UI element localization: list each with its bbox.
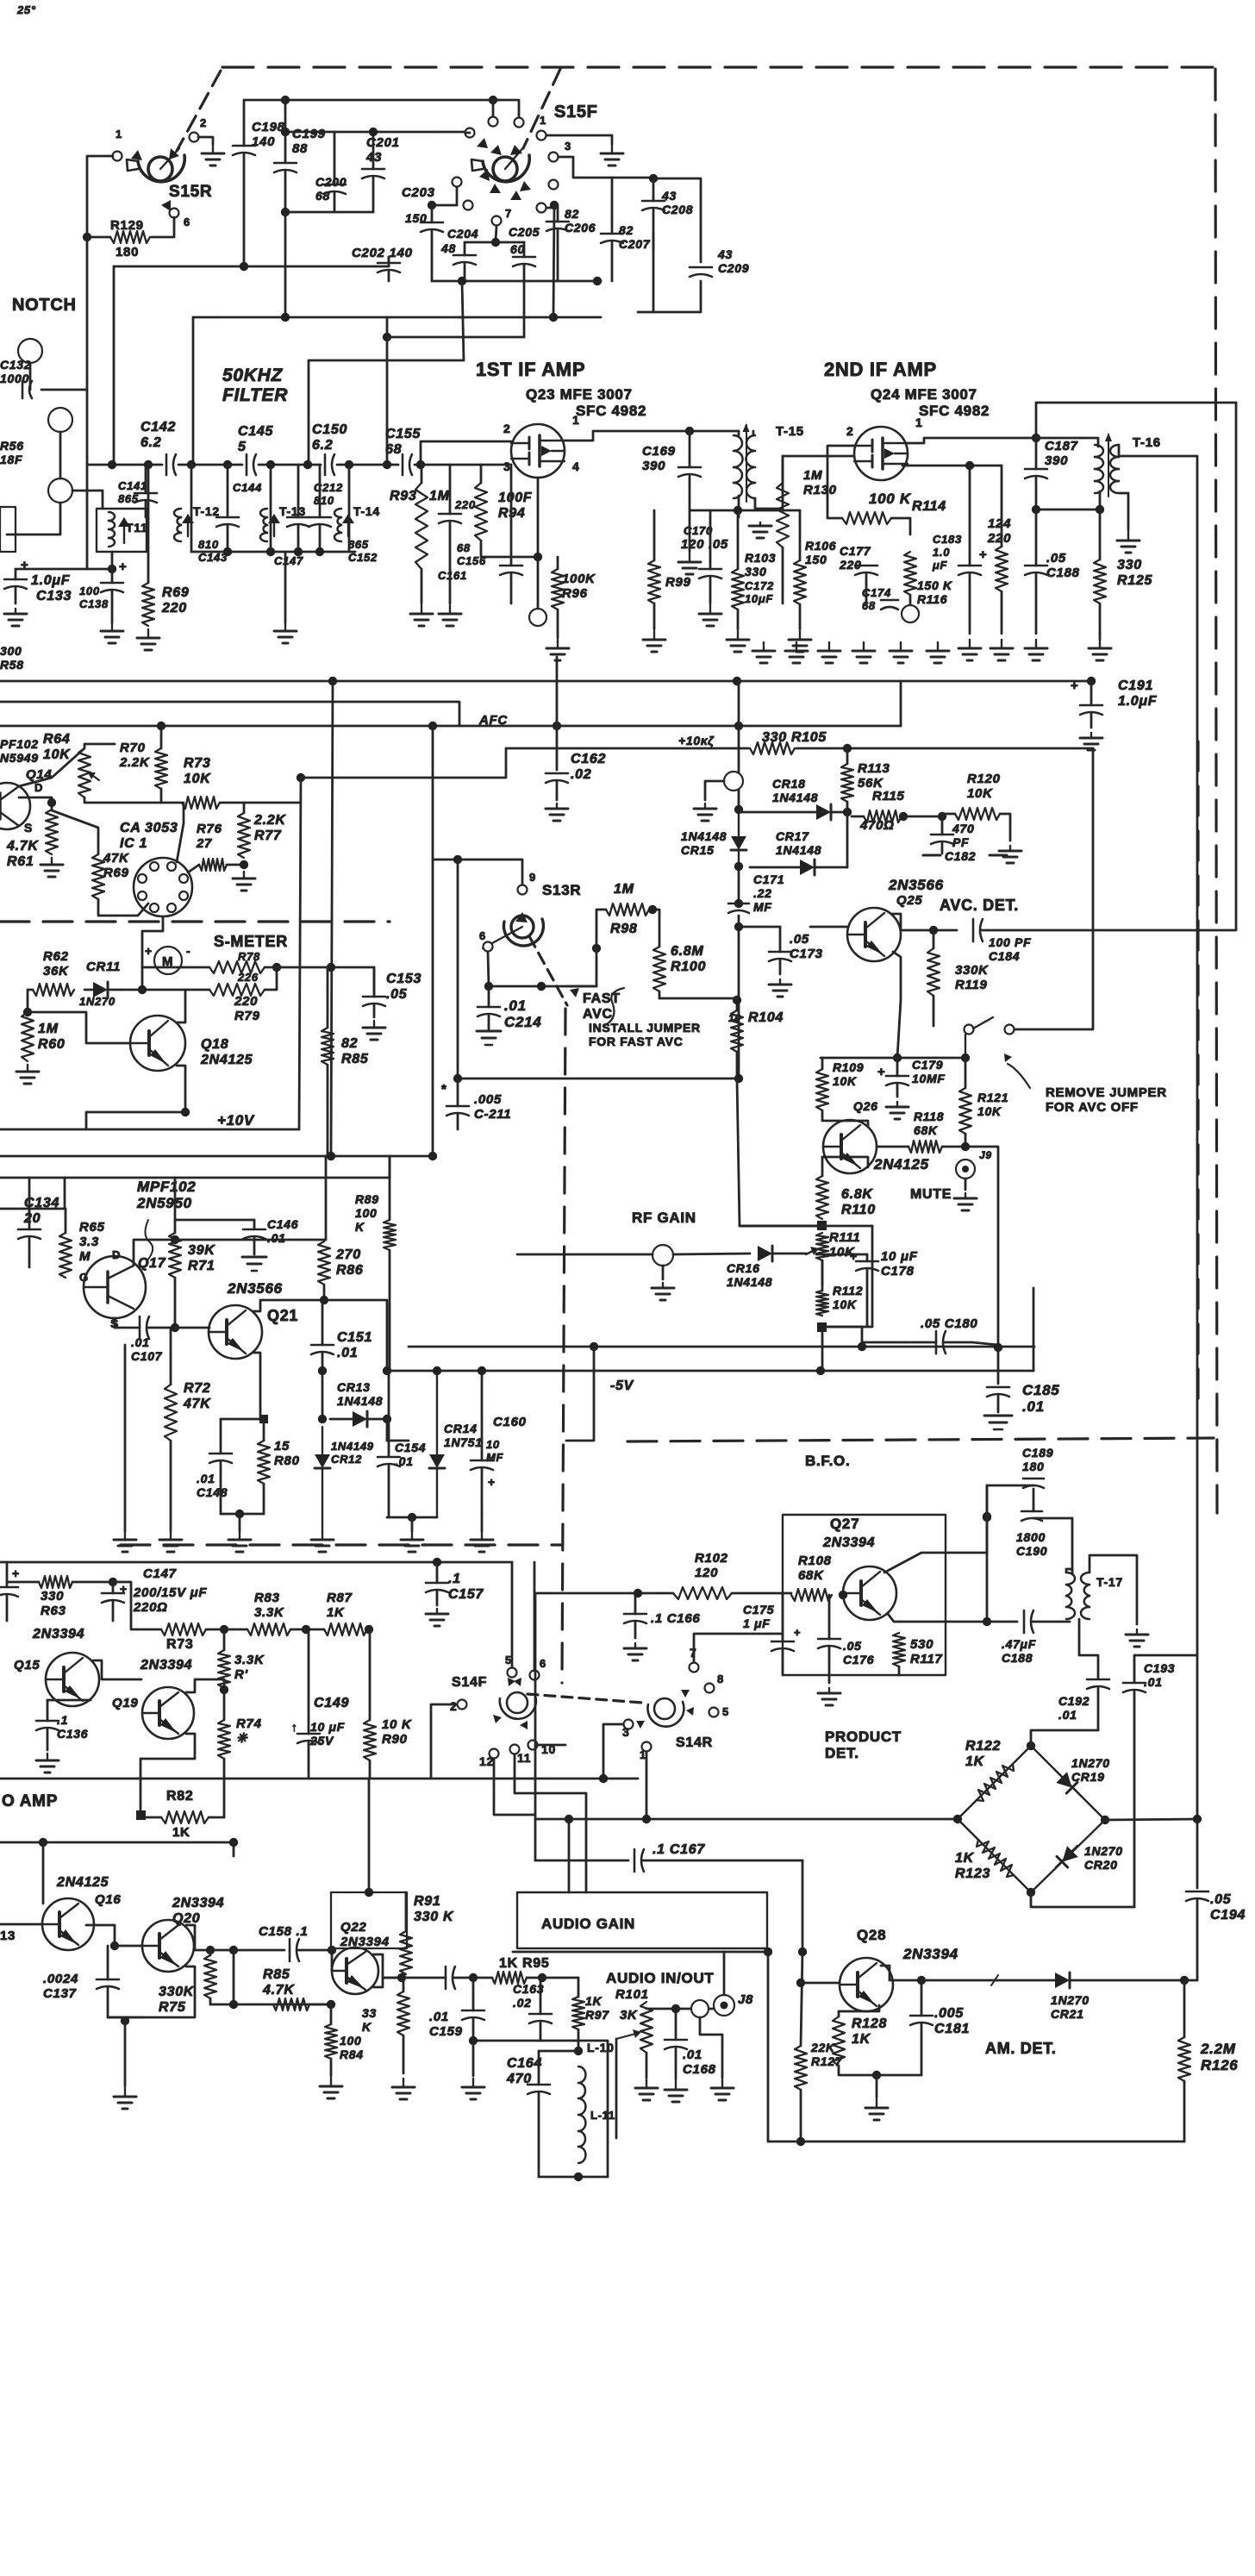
label R104 value	[728, 1012, 741, 1024]
svg-text:9: 9	[529, 871, 536, 884]
pin 7 label	[505, 207, 512, 220]
label C182	[952, 822, 974, 849]
dashed S14F-S14R link	[528, 1694, 642, 1703]
label C204	[447, 227, 478, 241]
wire Q17 source	[114, 1318, 116, 1328]
svg-text:10K: 10K	[43, 747, 71, 762]
svg-text:200/15V μF: 200/15V μF	[133, 1585, 207, 1600]
svg-text:1 μF: 1 μF	[743, 1616, 770, 1630]
svg-text:100 K: 100 K	[869, 491, 912, 507]
svg-text:R69: R69	[162, 585, 189, 600]
ground R96	[546, 640, 569, 660]
junction C191 top	[1087, 677, 1096, 685]
svg-text:C156: C156	[457, 554, 486, 567]
wire R98 to R100 top	[652, 910, 659, 947]
svg-text:C147: C147	[274, 554, 303, 567]
wire coll node right	[324, 1300, 387, 1371]
svg-text:R62: R62	[43, 949, 69, 964]
wire S14R pin1 down	[646, 1752, 648, 1819]
label C212	[314, 481, 343, 507]
svg-text:100: 100	[340, 2034, 361, 2048]
wire C138 to ground	[111, 603, 114, 622]
svg-text:R93: R93	[390, 489, 416, 503]
arrow into S15R bottom	[161, 200, 171, 211]
svg-text:AUDIO IN/OUT: AUDIO IN/OUT	[606, 1970, 715, 1986]
label R61	[6, 839, 39, 869]
resistor R65	[59, 1209, 72, 1278]
svg-text:.01: .01	[1022, 1398, 1045, 1415]
resistor R89	[384, 1220, 396, 1371]
ground C191	[1080, 733, 1102, 750]
label C180	[921, 1316, 977, 1331]
svg-text:150 K: 150 K	[917, 578, 952, 592]
S14R pin 7	[690, 1663, 699, 1673]
transistor Q16	[42, 1898, 94, 1950]
resistor R126	[1178, 1980, 1190, 2141]
svg-text:R106: R106	[805, 539, 836, 553]
wire C107 to Q21 base	[175, 1327, 209, 1329]
jumper pins	[965, 1017, 1015, 1054]
svg-text:330K: 330K	[159, 1985, 195, 1999]
svg-text:220: 220	[454, 498, 476, 511]
C146 ground bars	[242, 1257, 266, 1271]
wire tank right rail	[1071, 1518, 1074, 1573]
svg-text:C157: C157	[448, 1587, 484, 1602]
label C174	[862, 586, 891, 612]
label CR18	[772, 777, 818, 804]
rotary switch S14R	[647, 1698, 684, 1727]
resistor R117	[893, 1633, 905, 1675]
diode CR21	[1048, 1973, 1184, 1988]
junction 1145 1881	[983, 1617, 991, 1626]
label C168	[683, 2048, 716, 2077]
svg-text:2: 2	[846, 424, 854, 438]
svg-text:L-10: L-10	[587, 2041, 615, 2054]
ground R69	[137, 629, 159, 650]
transistor Q14	[0, 783, 30, 829]
svg-text:.01: .01	[683, 2048, 702, 2062]
wire TP to ground	[705, 781, 724, 800]
capacitor C192	[1087, 1679, 1109, 1730]
label C145	[238, 424, 273, 454]
wire filter input bus y539 seg1	[87, 464, 162, 466]
label S-METER	[214, 933, 288, 950]
ground Q17 stage	[114, 1531, 136, 1552]
svg-text:10 μF: 10 μF	[881, 1249, 918, 1264]
label C167	[652, 1842, 705, 1857]
ground strip 1088	[927, 642, 949, 663]
junction 931 2264	[798, 1948, 807, 1956]
wire T17 left top	[1066, 1569, 1072, 1573]
svg-text:C132: C132	[0, 358, 31, 372]
label Q25	[896, 893, 922, 908]
label 50KHZ FILTER	[222, 366, 288, 405]
svg-text:R75: R75	[159, 2000, 186, 2015]
wire 692 down to fastavc	[567, 948, 596, 986]
label R101	[615, 1987, 649, 2002]
wire R75 bus	[210, 2004, 331, 2006]
label Q23 type2	[576, 403, 646, 419]
label R85	[341, 1036, 369, 1066]
pin2 s14f	[450, 1699, 458, 1713]
label T-16	[1133, 435, 1161, 450]
wire box entry	[568, 1819, 571, 1892]
svg-text:CR21: CR21	[1051, 2007, 1084, 2021]
wire bfo from switch	[534, 1593, 537, 1819]
wire Q20 collector	[186, 1925, 234, 1950]
svg-text:.02: .02	[513, 1996, 532, 2010]
pin10 s14f	[541, 1742, 556, 1756]
label R117	[910, 1637, 943, 1666]
label R99	[665, 575, 691, 590]
wire IC1 to R76	[188, 865, 199, 872]
svg-text:Q21: Q21	[267, 1307, 298, 1324]
label R83	[254, 1591, 284, 1620]
ground R93	[410, 605, 433, 626]
svg-text:43: 43	[661, 189, 677, 203]
svg-text:Q19: Q19	[112, 1696, 138, 1710]
svg-text:2N4125: 2N4125	[56, 1875, 109, 1890]
capacitor C202	[378, 257, 400, 281]
wire notch link1	[29, 363, 32, 390]
junction 428 1890	[365, 1625, 373, 1634]
label BFO	[805, 1453, 850, 1469]
wire C187 to T16	[1036, 438, 1098, 447]
wire S15F pin1 to ground	[546, 135, 612, 145]
svg-text:C169: C169	[642, 444, 676, 459]
svg-text:C194: C194	[1210, 1908, 1246, 1923]
wire C180 right	[972, 1342, 998, 1345]
svg-text:390: 390	[1045, 453, 1068, 468]
IC1 circle	[134, 858, 192, 916]
svg-text:1K: 1K	[172, 1825, 190, 1840]
wire T17 bottom down	[1079, 1619, 1098, 1678]
svg-text:C204: C204	[447, 227, 478, 241]
resistor R60	[22, 1012, 34, 1061]
junction C199 top	[281, 96, 290, 104]
junction 466 2294	[397, 1973, 406, 1982]
svg-text:390: 390	[642, 459, 665, 473]
label CR19	[1071, 1756, 1110, 1784]
junction 1017 2407	[872, 2071, 881, 2079]
ground strip 1002	[852, 642, 875, 663]
ground R61	[41, 858, 63, 877]
label R77	[253, 813, 286, 843]
junction Q16 Q20	[110, 1941, 119, 1950]
label Q28 type	[902, 1946, 958, 1962]
svg-text:+: +	[119, 560, 127, 574]
svg-text:48: 48	[440, 241, 456, 255]
Q17 G label	[79, 1271, 89, 1284]
ground TP	[694, 803, 716, 821]
svg-text:1ST IF AMP: 1ST IF AMP	[476, 359, 585, 380]
resistor R70	[155, 748, 167, 803]
svg-text:R90: R90	[382, 1732, 408, 1747]
label R102	[695, 1551, 728, 1580]
wire T16 sec top	[1119, 445, 1197, 1819]
pin3 s14r	[622, 1725, 630, 1739]
label R103	[745, 551, 776, 578]
pin 2 label	[200, 116, 207, 129]
svg-text:1N4148: 1N4148	[681, 829, 727, 843]
wire right box edge	[900, 681, 902, 726]
line tick	[991, 1975, 998, 1985]
svg-text:R129: R129	[110, 218, 144, 233]
wire S15F cluster bottom bus	[432, 280, 601, 283]
svg-text:25V: 25V	[309, 1734, 334, 1748]
label AUDIO GAIN	[541, 1916, 635, 1932]
square junction Q21e	[259, 1415, 268, 1423]
junction 502 1341	[428, 1152, 437, 1160]
wire audio mid bus y2063	[0, 1778, 638, 1780]
svg-text:S15R: S15R	[169, 183, 212, 201]
svg-text:M: M	[79, 1249, 91, 1264]
svg-text:R130: R130	[803, 483, 837, 497]
svg-text:S14F: S14F	[452, 1675, 487, 1690]
svg-text:C151: C151	[337, 1330, 372, 1345]
svg-text:100: 100	[79, 585, 100, 597]
label C138	[79, 585, 109, 610]
label Rp	[234, 1653, 265, 1682]
Q23 pin 3	[503, 460, 511, 473]
capacitor C199	[274, 100, 297, 212]
capacitor C151	[311, 1300, 334, 1371]
label R85b	[262, 1967, 295, 1998]
dashed switch shaft vertical	[562, 1009, 565, 1683]
label R87	[327, 1591, 353, 1620]
Q27 box	[783, 1515, 946, 1675]
wire vertical x502	[432, 726, 434, 1156]
label R111	[829, 1230, 860, 1260]
wire T16 sec bottom	[1119, 493, 1128, 530]
svg-text:R115: R115	[872, 789, 905, 803]
resistor R115	[852, 810, 902, 822]
svg-text:4.7K: 4.7K	[262, 1983, 295, 1998]
label C132	[0, 358, 31, 385]
svg-text:FILTER: FILTER	[222, 385, 288, 405]
S15F pin 1	[537, 131, 546, 141]
svg-text:μF: μF	[932, 559, 948, 572]
svg-text:C208: C208	[662, 203, 693, 216]
junction 384 1122	[327, 963, 335, 972]
svg-text:2.2K: 2.2K	[119, 755, 150, 770]
svg-text:20: 20	[23, 1211, 41, 1226]
arrow S13R top	[515, 912, 528, 922]
svg-text:2N3394: 2N3394	[172, 1896, 224, 1910]
Q24 pin 1	[915, 416, 923, 429]
wire R61 top	[19, 797, 52, 810]
resistor R64	[78, 748, 91, 797]
svg-text:124: 124	[988, 516, 1011, 531]
svg-text:J8: J8	[738, 1992, 753, 2007]
wire corner 1268 down	[1014, 748, 1093, 1029]
capacitor C207	[601, 178, 623, 281]
svg-text:PF102: PF102	[0, 737, 39, 751]
resistor R83	[247, 1623, 290, 1635]
svg-text:PF: PF	[952, 835, 969, 849]
capacitor C169	[678, 431, 701, 510]
svg-text:R98: R98	[610, 922, 637, 936]
label C171	[753, 872, 784, 914]
wire Q27 collector diag	[884, 1553, 987, 1572]
wire S15R pin2 to ground	[198, 137, 213, 145]
transistor Q27	[843, 1566, 896, 1620]
notch box	[0, 507, 16, 552]
label R65	[79, 1220, 105, 1264]
label Q17	[138, 1256, 166, 1271]
ground R99	[643, 631, 665, 652]
wire Q28 emitter	[839, 2005, 879, 2011]
label R93	[390, 489, 416, 503]
svg-text:C-211: C-211	[474, 1107, 511, 1122]
junction pin3-right	[550, 201, 559, 209]
junction 203 1540	[171, 1323, 179, 1332]
label Q27	[830, 1516, 859, 1532]
svg-text:330: 330	[1117, 558, 1142, 572]
wire C208 box bottom	[638, 281, 701, 312]
wire 549 gnd	[472, 2041, 475, 2076]
ground filter bottom	[274, 622, 297, 643]
junction 891 2264	[764, 1948, 772, 1956]
label C177	[839, 544, 871, 572]
capacitor C149	[297, 1629, 320, 1779]
wire 278 gnd	[239, 1514, 241, 1531]
resistor R93	[415, 465, 428, 603]
capacitor C137	[97, 1946, 119, 2017]
svg-text:330 K: 330 K	[414, 1910, 454, 1924]
junction 929 2484	[796, 2137, 805, 2146]
label C176	[843, 1639, 874, 1666]
junction fbot 346	[294, 547, 303, 556]
svg-text:50KHZ: 50KHZ	[222, 366, 283, 385]
pin 6 label	[184, 216, 190, 228]
svg-text:R108: R108	[798, 1554, 832, 1568]
pin11 s14f	[517, 1751, 531, 1765]
junction 278 1756	[235, 1510, 244, 1518]
svg-text:5: 5	[238, 440, 247, 454]
junction CR18 node	[843, 808, 852, 816]
svg-text:43: 43	[717, 247, 733, 261]
wire x891 down	[767, 1952, 770, 2141]
svg-text:C154: C154	[395, 1441, 426, 1454]
ground RF GAIN pot	[652, 1283, 674, 1300]
resistor R105	[750, 742, 795, 754]
svg-text:1000: 1000	[0, 372, 29, 385]
svg-text:CR11: CR11	[86, 960, 121, 974]
wire notch link2	[59, 432, 62, 478]
resistor R123 diagonal	[977, 1840, 1014, 1877]
resistor R69	[142, 465, 154, 626]
svg-text:C171: C171	[753, 872, 784, 886]
capacitor C175	[771, 1593, 794, 1675]
wire R103 top	[737, 510, 740, 569]
transistor Q22	[332, 1948, 378, 1994]
junction C157 top	[433, 1558, 441, 1566]
junction filter 449	[383, 460, 391, 469]
svg-text:68: 68	[315, 189, 330, 203]
wire bus y842	[0, 725, 901, 728]
junction 549 2367	[469, 2036, 478, 2045]
resistor R82	[146, 1811, 224, 1823]
audio gain box	[517, 1892, 767, 1948]
label R79	[234, 994, 260, 1023]
wire C208 bottom join	[652, 233, 655, 312]
junction 331 153	[281, 128, 290, 136]
svg-text:270: 270	[335, 1247, 361, 1262]
label C146	[267, 1217, 298, 1245]
label MPF102	[136, 1179, 196, 1211]
resistor R112	[816, 1291, 828, 1316]
svg-text:✳: ✳	[236, 1731, 248, 1746]
junction Q18 e	[181, 1108, 190, 1116]
svg-text:R87: R87	[327, 1591, 353, 1605]
capacitor C183	[958, 466, 981, 634]
label R100	[671, 944, 706, 974]
label Q14	[26, 767, 52, 782]
label R82	[166, 1789, 193, 1804]
plus C147	[120, 1582, 128, 1596]
svg-text:C170: C170	[684, 524, 713, 537]
wire pin lla down	[456, 187, 459, 205]
svg-text:100 PF: 100 PF	[989, 935, 1031, 949]
wire tank top link	[987, 1485, 1033, 1487]
label R74	[236, 1716, 262, 1746]
label C166	[651, 1611, 700, 1626]
wire T17 right top	[1090, 1555, 1137, 1624]
label Q24 type2	[919, 403, 990, 419]
label R62	[43, 949, 69, 979]
wire Q17 drain up	[134, 1240, 175, 1266]
capacitor C153	[363, 967, 385, 1017]
label C149 value	[309, 1720, 345, 1748]
label C161 value	[454, 498, 476, 511]
ground R84	[320, 2078, 342, 2098]
junction 331/368	[281, 313, 290, 322]
svg-text:.05: .05	[386, 987, 408, 1002]
S14R pin 5	[709, 1708, 719, 1717]
wire Q25 emitter down	[893, 952, 901, 1058]
svg-text:6.8K: 6.8K	[841, 1187, 873, 1202]
svg-text:AUDIO GAIN: AUDIO GAIN	[541, 1916, 635, 1932]
capacitor C173	[769, 927, 791, 974]
svg-text:1K R95: 1K R95	[499, 1956, 549, 1971]
label R101 value	[620, 2008, 638, 2023]
capacitor C209	[690, 267, 712, 277]
resistor R103	[732, 569, 744, 629]
transistor Q28	[840, 1958, 893, 2011]
svg-text:.02: .02	[571, 767, 591, 782]
svg-text:68K: 68K	[798, 1568, 824, 1583]
svg-text:R71: R71	[188, 1259, 215, 1273]
wire R120 right down	[1000, 814, 1010, 841]
label C134	[23, 1196, 59, 1226]
label AUDIO AMP	[2, 1792, 58, 1810]
label R125	[1117, 558, 1152, 588]
wire R64-R70 link	[84, 797, 182, 803]
label C199	[292, 127, 326, 156]
ground R106	[789, 631, 811, 652]
junction L10 top	[574, 2047, 583, 2055]
label Q26 type	[873, 1156, 929, 1172]
svg-text:C144: C144	[233, 481, 262, 494]
dashed right border	[1215, 69, 1217, 1513]
svg-text:C160: C160	[493, 1415, 527, 1429]
transistor Q17	[84, 1256, 146, 1318]
svg-text:1N4149: 1N4149	[331, 1440, 374, 1453]
svg-text:CR20: CR20	[1084, 1858, 1118, 1872]
svg-text:S-METER: S-METER	[214, 933, 288, 950]
label AFC	[478, 713, 508, 728]
